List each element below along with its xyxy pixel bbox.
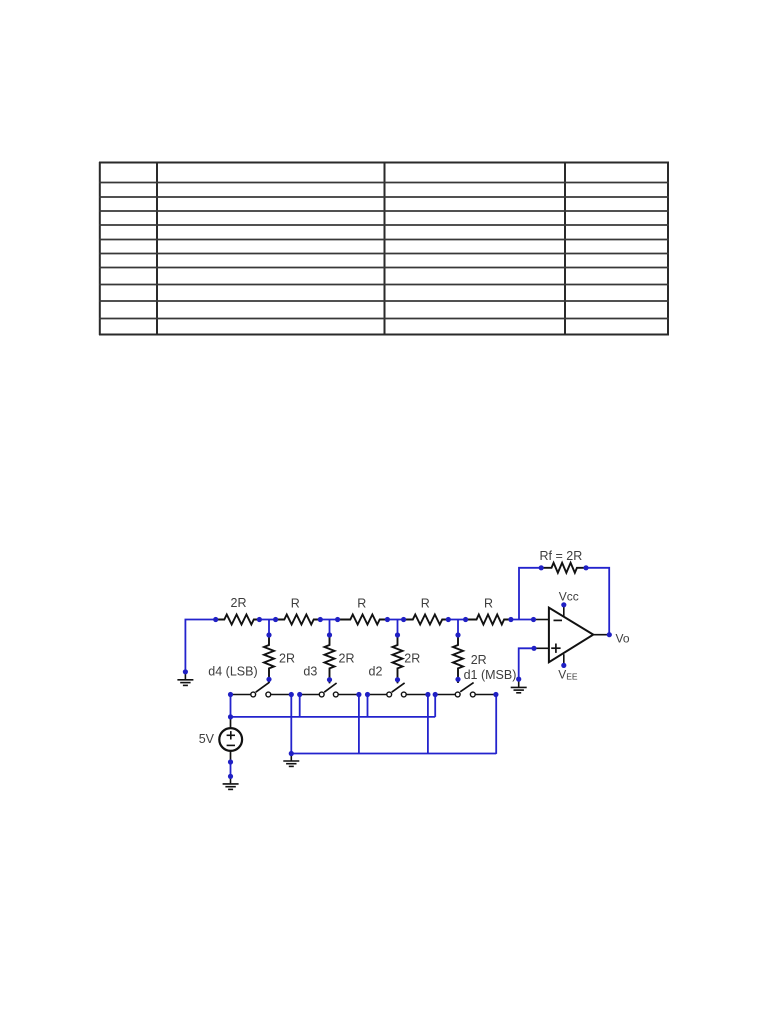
resistor R (series 2nd) (276, 615, 321, 625)
svg-text:Vo: Vo (616, 632, 630, 646)
svg-text:VEE: VEE (558, 668, 578, 682)
wire: d2 left throw riser (367, 695, 369, 717)
svg-text:R: R (484, 597, 493, 611)
label 2R (d2 branch) (404, 652, 420, 666)
wire: d1 left throw riser (434, 695, 436, 717)
ground (left rail) (177, 672, 193, 686)
label R (series 4th) (421, 597, 430, 611)
resistor 2R vertical (d3 branch) (325, 635, 335, 683)
wire: d3 left throw riser (299, 695, 301, 717)
ground (bus3 / d4 right throw) (283, 754, 299, 767)
svg-text:d1 (MSB): d1 (MSB) (464, 668, 517, 682)
svg-text:5V: 5V (199, 732, 215, 746)
wire: d4 pole riser to 5V column (230, 695, 232, 717)
resistor 2R (series, leftmost) (216, 615, 260, 625)
svg-text:R: R (357, 597, 366, 611)
label d2 (369, 665, 383, 679)
wire: ladder rail with left drop (185, 620, 533, 672)
wire: branch stub node d4 (268, 620, 270, 638)
svg-text:d2: d2 (369, 665, 383, 679)
label VEE (558, 668, 578, 682)
label R (series 5th) (484, 597, 493, 611)
wire: branch stub node d2 (397, 620, 399, 638)
resistor 2R vertical (d1 branch) (453, 635, 463, 683)
switch d2 (SPDT) (368, 680, 428, 697)
wire: d3 right throw drop (358, 695, 360, 754)
resistor R (series 3rd) (338, 615, 388, 625)
svg-text:2R: 2R (279, 652, 295, 666)
resistor 2R vertical (d4 branch) (264, 635, 274, 683)
label d4 (LSB) (208, 665, 257, 679)
resistor R (series 5th) (466, 615, 511, 625)
svg-text:d4 (LSB): d4 (LSB) (208, 665, 257, 679)
resistor 2R vertical (d2 branch) (393, 635, 403, 683)
label Vcc (559, 589, 579, 603)
switch d3 (SPDT) (300, 680, 359, 697)
wire: ground bus (bus3) (291, 753, 496, 755)
label d3 (303, 665, 317, 679)
svg-text:Rf = 2R: Rf = 2R (540, 549, 583, 563)
resistor Rf = 2R (feedback) (541, 563, 586, 573)
ground (below 5V source) (223, 776, 239, 789)
label Rf = 2R (540, 549, 583, 563)
label d1 (MSB) (464, 668, 517, 682)
wire: d2 right throw drop (427, 695, 429, 754)
svg-text:R: R (291, 597, 300, 611)
label 2R (d1 branch) (471, 653, 487, 667)
label 2R (series) (231, 596, 247, 610)
switch d1 (SPDT) (435, 679, 496, 697)
wire: non-inverting input to ground (519, 648, 534, 679)
wire: feedback right + output vertical (586, 568, 609, 635)
wire: 5V source bottom link (230, 762, 232, 776)
label Vo (616, 632, 630, 646)
label R (series 3rd) (357, 597, 366, 611)
wire: d4 right throw drop to ground bus (290, 695, 292, 754)
label 2R (d4 branch) (279, 652, 295, 666)
resistor R (series 4th) (404, 615, 449, 625)
wire: d1 right throw drop (495, 695, 497, 754)
svg-text:R: R (421, 597, 430, 611)
ground (op-amp non-inverting input) (511, 679, 527, 693)
table grid (99, 162, 669, 335)
node dots (junctions) (183, 565, 612, 779)
op-amp U1 (534, 605, 610, 665)
svg-text:2R: 2R (231, 596, 247, 610)
switch d4 (SPDT) (231, 679, 292, 697)
wire: feedback left vertical (519, 568, 541, 620)
label 2R (d3 branch) (339, 652, 355, 666)
svg-text:2R: 2R (339, 652, 355, 666)
label R (series 2nd) (291, 597, 300, 611)
wire: branch stub node d3 (329, 620, 331, 638)
wire: branch stub node d1 (457, 620, 459, 638)
svg-text:d3: d3 (303, 665, 317, 679)
source V1 5V (219, 717, 242, 762)
svg-text:Vcc: Vcc (559, 589, 579, 603)
label 5V (199, 732, 215, 746)
wire: 5V bus (bus2) (231, 716, 436, 718)
svg-text:2R: 2R (471, 653, 487, 667)
svg-text:2R: 2R (404, 652, 420, 666)
